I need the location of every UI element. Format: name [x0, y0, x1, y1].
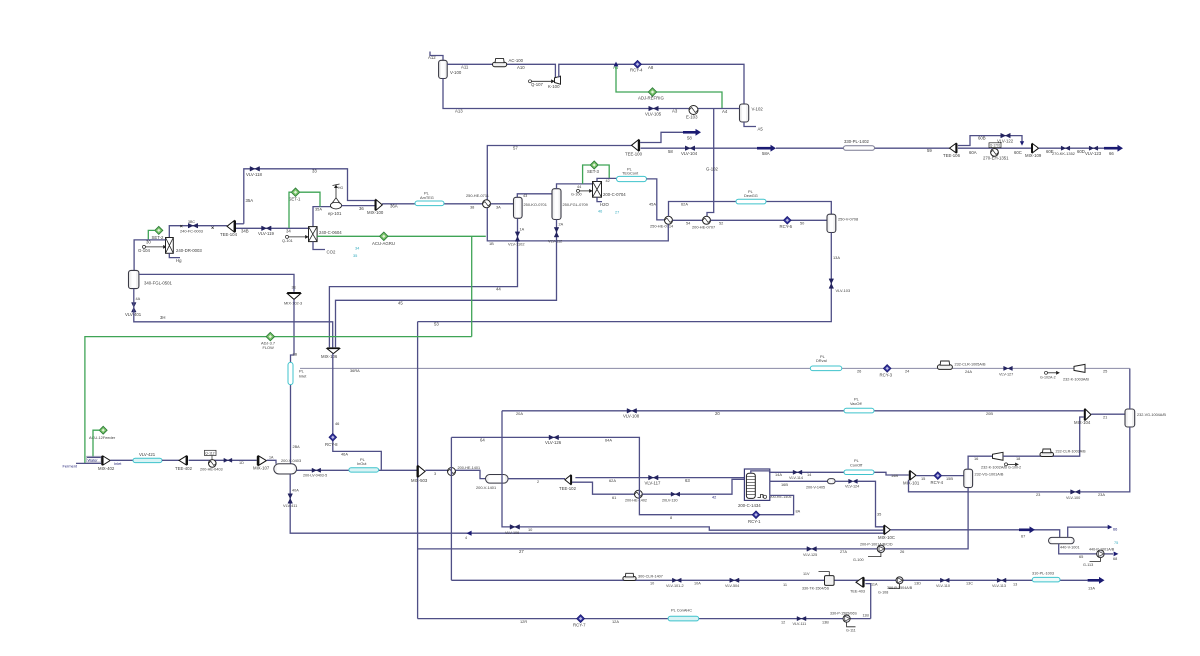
- svg-text:3BC: 3BC: [188, 220, 195, 224]
- green ACU-AGRU line: [317, 235, 486, 237]
- svg-text:57: 57: [513, 146, 518, 151]
- regenerator 200-C-0704: [593, 182, 602, 198]
- svg-text:G-100: G-100: [853, 558, 864, 562]
- svg-text:20LV-130: 20LV-130: [662, 498, 678, 502]
- svg-text:3E: 3E: [292, 286, 297, 290]
- svg-text:232-CLR-1003A/B: 232-CLR-1003A/B: [1056, 450, 1087, 454]
- svg-text:62A: 62A: [681, 202, 688, 207]
- svg-text:200-HE-0403: 200-HE-0403: [200, 468, 223, 472]
- stream MIX-101 bottom link: [909, 480, 969, 492]
- stream 12 ConAHC line: [418, 618, 871, 620]
- pump 440-P-1001A/B: [1097, 550, 1105, 558]
- pipe PL AmTEG: [415, 201, 444, 206]
- valve VLV-108: [627, 409, 637, 414]
- svg-text:25: 25: [1103, 369, 1107, 374]
- green link feeder: [93, 430, 99, 457]
- svg-text:46: 46: [335, 421, 339, 426]
- drum 440-V-1001: [1049, 537, 1075, 543]
- svg-text:4: 4: [465, 536, 467, 540]
- mixer MIX-503: [418, 466, 425, 477]
- stream 10 hot line: [451, 579, 1087, 581]
- svg-text:TEE-104: TEE-104: [220, 232, 238, 237]
- filter 340-FGL-0501: [129, 270, 139, 288]
- svg-text:TEE-402: TEE-402: [175, 466, 193, 471]
- svg-text:200-HE-1401: 200-HE-1401: [458, 466, 481, 470]
- valve VLV-117: [649, 475, 659, 480]
- svg-text:46: 46: [598, 210, 602, 214]
- svg-text:12: 12: [781, 620, 785, 624]
- svg-text:24A: 24A: [965, 369, 972, 374]
- svg-text:60A: 60A: [969, 150, 977, 155]
- air cooler 300-CLR-1407: [623, 577, 636, 581]
- svg-text:35: 35: [877, 512, 881, 517]
- stream 35 drop to MIX-10C: [857, 481, 883, 527]
- stream Hg stub: [169, 253, 180, 257]
- set SET-2: [155, 226, 163, 234]
- svg-text:240-FC-0003: 240-FC-0003: [180, 229, 203, 234]
- tee TEE-403: [856, 577, 863, 587]
- drum bottom stream VLV-411: [290, 474, 883, 533]
- stream to TEE-106: [776, 147, 950, 149]
- svg-text:VLV-100: VLV-100: [1066, 496, 1080, 500]
- separator V-100: [439, 60, 448, 78]
- signal mark: [180, 225, 214, 229]
- expander ep-101: [330, 202, 341, 209]
- compressor 232-K-1003A/B: [1074, 364, 1085, 372]
- svg-text:440-V-1001: 440-V-1001: [1060, 546, 1080, 550]
- stream 43 KO top to FGL-0709: [517, 194, 552, 198]
- valve VLV-103 vertical: [829, 279, 834, 289]
- stream 23 vessel bottoms line: [968, 427, 1130, 492]
- svg-text:75: 75: [1114, 541, 1118, 545]
- svg-text:MIX-107: MIX-107: [253, 466, 270, 471]
- svg-text:MIX-106: MIX-106: [321, 354, 338, 359]
- svg-text:VLV-113: VLV-113: [992, 584, 1006, 588]
- svg-text:3A: 3A: [496, 205, 501, 210]
- heater 270-EH-1351: [991, 149, 999, 157]
- svg-text:Ferment: Ferment: [63, 464, 78, 469]
- svg-text:Hg: Hg: [176, 258, 182, 263]
- svg-text:20A: 20A: [516, 411, 523, 416]
- svg-text:27: 27: [615, 211, 619, 215]
- svg-text:44: 44: [496, 286, 501, 291]
- valve VLV-125: [807, 547, 817, 552]
- svg-text:TEGCont: TEGCont: [622, 171, 639, 176]
- pipe VLV-421: [133, 458, 162, 462]
- svg-text:42: 42: [712, 494, 716, 499]
- svg-text:Water: Water: [88, 457, 99, 462]
- svg-text:Inlet: Inlet: [299, 373, 307, 378]
- svg-text:13C: 13C: [966, 582, 973, 586]
- arrow into MIX-109: [1020, 141, 1024, 145]
- svg-text:330-P-1505/06S: 330-P-1505/06S: [830, 612, 857, 616]
- recycle RCY-6: [784, 217, 792, 225]
- valve VLV-127: [1004, 366, 1013, 370]
- stream 42 line to TEGCont: [597, 178, 617, 181]
- stream from 240-DR-0003 top: [169, 226, 227, 238]
- svg-text:Q-1701: Q-1701: [990, 144, 1001, 148]
- export arrow 58A: [757, 147, 771, 150]
- svg-text:MIX-104: MIX-104: [1074, 420, 1091, 425]
- mixer MIX-104: [1085, 409, 1091, 420]
- svg-text:26: 26: [900, 549, 904, 554]
- stream 67 to 440-V-1001: [891, 530, 1060, 538]
- svg-text:VLV-421: VLV-421: [139, 452, 156, 457]
- reboiler 200-RE-1405: [758, 495, 767, 498]
- svg-text:27A: 27A: [840, 549, 847, 554]
- svg-text:G-100: G-100: [571, 193, 582, 197]
- mixer MIX-101: [910, 471, 916, 480]
- svg-text:G-113: G-113: [1083, 563, 1093, 567]
- stream MIX-102-3 outlet to drum: [291, 299, 295, 463]
- column frame 200-C-1434: [744, 469, 769, 500]
- svg-text:23: 23: [1036, 492, 1040, 497]
- svg-text:E-103: E-103: [686, 115, 698, 120]
- svg-text:1A: 1A: [520, 228, 525, 232]
- energy G-113: [1090, 558, 1101, 562]
- svg-text:VLV-118: VLV-118: [246, 172, 262, 177]
- pump 300-P-1504A/B: [896, 577, 903, 584]
- stream 3 to HE-1401: [425, 469, 447, 471]
- svg-text:HG: HG: [338, 186, 343, 190]
- svg-text:VLV-125: VLV-125: [803, 553, 817, 557]
- svg-text:MIX-102-3: MIX-102-3: [284, 301, 302, 306]
- svg-text:G-104: G-104: [138, 248, 151, 253]
- tee TEE-402: [179, 456, 186, 465]
- svg-text:60C: 60C: [1014, 150, 1022, 155]
- stream 66 vapor out: [1068, 527, 1108, 537]
- green link SET-3 right: [598, 165, 609, 178]
- stream 21 to 232-VG-1004A/B: [1091, 413, 1125, 415]
- stream through VLV-124: [835, 480, 848, 482]
- svg-text:4A: 4A: [136, 297, 141, 301]
- feed Water: [87, 456, 101, 458]
- svg-text:13: 13: [1013, 582, 1017, 586]
- stream Inlet: [110, 459, 133, 461]
- stream 60A main: [958, 147, 1031, 149]
- svg-text:60B: 60B: [978, 136, 986, 141]
- svg-text:3H: 3H: [160, 315, 166, 320]
- pump 200-HE-1402: [635, 490, 643, 498]
- svg-text:A11: A11: [461, 65, 469, 70]
- svg-text:VLV-103: VLV-103: [836, 288, 851, 293]
- svg-text:K-100: K-100: [548, 84, 560, 89]
- svg-text:VLV-124: VLV-124: [845, 485, 859, 489]
- stream 60 out of MIX-109: [1039, 147, 1104, 149]
- svg-text:200-HE-0707: 200-HE-0707: [692, 225, 715, 230]
- set SET-1: [291, 188, 299, 196]
- pipe 310-PL-1003: [1032, 577, 1060, 582]
- valve VLV-106: [510, 525, 520, 530]
- pipe PL VacOff: [844, 408, 874, 413]
- svg-text:36A: 36A: [390, 204, 398, 209]
- stream 15: [916, 475, 934, 477]
- mixer MIX-10C: [885, 525, 891, 534]
- vessel 250-KO-0701: [514, 197, 523, 218]
- stream 26 vessel bottom to pump line: [418, 488, 969, 549]
- svg-text:VLV-123: VLV-123: [1085, 151, 1102, 156]
- svg-text:VLV-106: VLV-106: [505, 531, 519, 535]
- stream 46 MIX-106 outlet: [333, 354, 382, 470]
- svg-text:G-102: G-102: [706, 167, 719, 172]
- adjust ADJ-REFRIG: [648, 88, 656, 96]
- green link SET-2: [148, 230, 155, 239]
- energy stream Q-107: [529, 80, 532, 83]
- adjust ADJ-REFRIG green line: [616, 67, 722, 109]
- svg-text:MIX-109: MIX-109: [1025, 153, 1042, 158]
- stream 20A drop to VLV-106: [502, 411, 883, 530]
- svg-text:200-C-0704: 200-C-0704: [603, 192, 626, 197]
- stream 36RA gray line: [300, 367, 842, 369]
- valve VLV-413: [224, 458, 232, 462]
- stream 54: [673, 219, 703, 221]
- vessel 250-FGL-0709: [552, 189, 561, 220]
- svg-text:232-VG-1001A/B: 232-VG-1001A/B: [975, 472, 1004, 476]
- svg-text:SET-2: SET-2: [152, 235, 165, 240]
- svg-text:TEE-106: TEE-106: [943, 153, 961, 158]
- svg-text:13A: 13A: [1088, 585, 1095, 590]
- valve VLV-411 vertical: [288, 494, 293, 504]
- pump 232-P-1001A/B/C/D: [877, 545, 884, 552]
- svg-text:340-FGL-0501: 340-FGL-0501: [144, 281, 173, 286]
- svg-text:8: 8: [670, 515, 672, 520]
- svg-text:RCY-3: RCY-3: [880, 373, 893, 378]
- svg-text:250-HE-0714: 250-HE-0714: [650, 224, 674, 229]
- vessel 250-V-0708: [827, 214, 836, 232]
- svg-text:11A: 11A: [871, 583, 878, 587]
- svg-text:200-LV-0403-5: 200-LV-0403-5: [303, 474, 327, 478]
- svg-text:FLOW: FLOW: [263, 345, 275, 350]
- svg-text:12R: 12R: [520, 619, 527, 624]
- svg-text:2: 2: [537, 480, 539, 484]
- svg-text:38: 38: [470, 205, 474, 210]
- stream 52 to 250-V-0708: [711, 219, 828, 221]
- cooler E-103: [689, 106, 698, 115]
- vessel V-102: [740, 104, 749, 122]
- svg-text:RCY-6: RCY-6: [780, 224, 793, 229]
- stream H2O stub: [597, 197, 602, 201]
- svg-text:InOut: InOut: [357, 461, 367, 466]
- svg-text:44: 44: [577, 185, 581, 189]
- svg-text:270-EH-1351: 270-EH-1351: [983, 156, 1009, 161]
- drum 200-V-1405: [828, 479, 836, 484]
- svg-text:G-102A-2: G-102A-2: [1040, 375, 1056, 379]
- set SET-3: [590, 161, 598, 169]
- compressor K-100: [555, 76, 561, 84]
- export arrow 13A: [1088, 579, 1099, 582]
- svg-text:52: 52: [719, 221, 723, 226]
- svg-text:VLV-101-2: VLV-101-2: [666, 584, 684, 588]
- vessel 232-VG-1004A/B: [1125, 409, 1135, 427]
- svg-text:200-P-1001A/B/C/D: 200-P-1001A/B/C/D: [860, 542, 893, 546]
- svg-text:TEE-102: TEE-102: [559, 486, 577, 491]
- svg-text:Q-112: Q-112: [205, 451, 214, 455]
- svg-text:21: 21: [1103, 414, 1107, 419]
- stream 17 to cooler: [1003, 417, 1084, 456]
- vessel 232-VG-1001A/B: [964, 469, 973, 487]
- svg-text:240-C-0604: 240-C-0604: [319, 230, 342, 235]
- svg-text:240-DR-0003: 240-DR-0003: [176, 248, 202, 253]
- svg-text:SET-3: SET-3: [587, 169, 600, 174]
- svg-text:3B: 3B: [293, 353, 298, 357]
- valve VLV-101-2: [672, 578, 681, 582]
- stream 36 to MIX-100: [342, 205, 375, 207]
- valve 270-KK-1352: [1061, 146, 1070, 150]
- air cooler 232-CLR-1003A/B: [1040, 452, 1054, 456]
- svg-text:A10: A10: [517, 65, 525, 70]
- valve VLV-401 vertical: [132, 303, 137, 313]
- svg-text:36RA: 36RA: [350, 368, 360, 373]
- stream into drum 200-V-0403: [267, 460, 276, 464]
- valve VLV-112 vertical: [554, 227, 559, 237]
- svg-text:VLV-117: VLV-117: [645, 480, 661, 485]
- stream 25 riser: [1129, 368, 1131, 409]
- valve VLV-130: [671, 492, 680, 496]
- svg-text:60D: 60D: [1077, 149, 1085, 154]
- mixer MIX-402: [103, 456, 110, 465]
- valve VLV-118: [250, 167, 259, 172]
- stream 34B: [236, 227, 309, 229]
- stream 62A/63 to column: [575, 477, 744, 479]
- stream 16 vessel top to compressor: [968, 456, 992, 469]
- svg-text:VLV-119: VLV-119: [258, 231, 274, 236]
- feed Ferment: [76, 462, 101, 464]
- svg-text:VLV-411: VLV-411: [283, 503, 297, 508]
- green ADJ-3.7 line: [85, 337, 472, 464]
- svg-text:58A: 58A: [762, 151, 770, 156]
- svg-text:13A: 13A: [833, 255, 840, 260]
- stream 2 to TEE-102: [508, 478, 565, 480]
- stream 2A through VLV-112 to MIX-106: [336, 220, 557, 348]
- svg-text:ConOff: ConOff: [850, 462, 863, 467]
- svg-text:2BA: 2BA: [293, 445, 301, 449]
- valve VLV-123: [1089, 146, 1098, 150]
- valve VLV-110: [940, 578, 949, 582]
- svg-text:11: 11: [783, 582, 787, 587]
- svg-text:200-HE-1402: 200-HE-1402: [625, 499, 647, 503]
- valve VLV-113: [997, 578, 1006, 582]
- drum 200-V-1401: [486, 475, 509, 484]
- svg-text:200-V-0403: 200-V-0403: [281, 458, 301, 463]
- valve 200-LV-0403-5: [312, 468, 321, 472]
- stream 44 FGL top to 200-C-0704: [557, 184, 593, 189]
- drum 200-V-0403: [274, 464, 297, 474]
- heater 200-HE-0707: [703, 216, 711, 224]
- pipe PL DRval: [810, 366, 842, 371]
- svg-text:330-TK-1504/5S: 330-TK-1504/5S: [802, 587, 830, 591]
- svg-text:MIX-503: MIX-503: [411, 478, 428, 483]
- svg-text:A5: A5: [758, 127, 764, 132]
- valve VLV-124: [849, 479, 858, 483]
- svg-text:VLV-127: VLV-127: [999, 372, 1013, 376]
- stream A12 inlet line: [430, 52, 443, 61]
- svg-text:310-PL-1003: 310-PL-1003: [1032, 571, 1054, 575]
- svg-text:H2O: H2O: [600, 202, 609, 207]
- pipe PL ConOff: [844, 470, 874, 475]
- adjust ADJ-3.7 FLOW: [266, 332, 274, 340]
- absorber 240-C-0604: [309, 227, 318, 242]
- svg-text:1A: 1A: [269, 456, 274, 460]
- stream 36A to AmTEG: [382, 203, 482, 205]
- svg-text:35A: 35A: [315, 206, 322, 211]
- stream CO2 stub: [313, 242, 325, 250]
- green link SET-1 right: [300, 192, 320, 206]
- svg-text:A3: A3: [672, 109, 678, 114]
- adjust ACU-12Feeder: [99, 426, 107, 434]
- svg-text:MIX-10C: MIX-10C: [878, 535, 895, 540]
- svg-text:300-CLR-1407: 300-CLR-1407: [638, 574, 663, 578]
- adjust ACU-AGRU: [380, 232, 388, 240]
- mixer MIX-107: [259, 456, 267, 465]
- valve VLV-111: [797, 617, 806, 621]
- svg-text:200-C-1434: 200-C-1434: [738, 503, 761, 508]
- stream into 200-V-1401: [456, 470, 486, 478]
- pipe PL ConAHC: [668, 616, 699, 621]
- svg-text:11V: 11V: [803, 572, 810, 576]
- svg-text:DewGG: DewGG: [744, 193, 758, 198]
- stream 3A: [491, 203, 514, 205]
- stream 60B branch over VLV-122: [958, 136, 1022, 146]
- stream 30 line to vessel: [134, 240, 165, 270]
- stream 62A to VLV-130: [642, 479, 744, 494]
- energy stream G-102 line: [707, 109, 714, 217]
- svg-text:RCY-4: RCY-4: [931, 480, 944, 485]
- svg-text:65: 65: [1079, 554, 1083, 559]
- tee TEE-100: [632, 140, 639, 151]
- svg-text:VLV-126: VLV-126: [545, 440, 562, 445]
- svg-text:40A: 40A: [292, 489, 299, 493]
- svg-text:34: 34: [286, 229, 291, 234]
- valve VLV-105: [649, 106, 659, 111]
- svg-text:VLV-105: VLV-105: [645, 112, 662, 117]
- stream 24 line components: [842, 367, 1130, 369]
- svg-text:13B: 13B: [822, 620, 829, 624]
- energy G-100: [868, 553, 881, 557]
- recycle RCY-4 top: [634, 60, 642, 68]
- svg-text:CO2: CO2: [327, 250, 336, 255]
- pipe PL InOut: [349, 468, 379, 472]
- pump 330-P-1505/6S: [843, 615, 850, 622]
- svg-text:45A: 45A: [649, 202, 656, 207]
- svg-text:34B: 34B: [241, 229, 249, 234]
- column overhead stream 14A: [751, 471, 909, 475]
- tee TEE-102: [565, 475, 571, 484]
- tee branch to 35A riser: [236, 223, 244, 225]
- svg-text:TEE-403: TEE-403: [850, 590, 865, 594]
- svg-text:15: 15: [921, 476, 925, 481]
- stream 58 branch up: [640, 132, 683, 142]
- compressor 232-K-1002A/B: [993, 452, 1004, 460]
- svg-text:MIX-402: MIX-402: [98, 466, 115, 471]
- heat exchanger 250-HE-0714: [665, 216, 673, 224]
- svg-text:20B: 20B: [986, 411, 993, 416]
- svg-text:A8: A8: [648, 65, 654, 70]
- svg-text:67: 67: [1021, 533, 1025, 538]
- svg-text:11B: 11B: [863, 613, 870, 617]
- svg-text:23A: 23A: [1098, 492, 1105, 497]
- svg-text:Q-107: Q-107: [531, 82, 544, 87]
- svg-text:53: 53: [434, 322, 439, 327]
- svg-text:VLV-1102: VLV-1102: [508, 242, 525, 247]
- svg-text:VLV-114: VLV-114: [789, 476, 803, 480]
- svg-text:46A: 46A: [341, 452, 348, 457]
- svg-text:ACU-AGRU: ACU-AGRU: [372, 241, 395, 246]
- svg-text:27: 27: [519, 549, 524, 554]
- stream 33 line with VLV-118: [244, 169, 375, 224]
- svg-text:Q-101: Q-101: [282, 238, 293, 243]
- svg-text:16B: 16B: [781, 482, 788, 487]
- svg-text:15B: 15B: [946, 476, 953, 481]
